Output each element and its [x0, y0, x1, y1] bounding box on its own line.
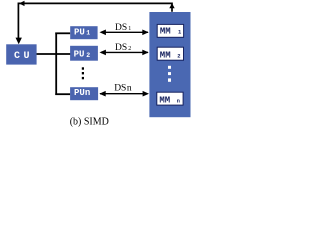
- svg-text:1: 1: [86, 29, 90, 36]
- svg-text:n: n: [177, 97, 180, 104]
- svg-text:MM: MM: [160, 50, 171, 60]
- DS2 double arrow wire: [100, 43, 149, 55]
- ellipsis dots between PU2 and PUn: [82, 67, 84, 79]
- svg-text:PU: PU: [74, 88, 85, 98]
- wire: trunk branch to PU1: [55, 32, 70, 34]
- svg-text:PU: PU: [74, 27, 85, 37]
- svg-text:2: 2: [128, 46, 131, 52]
- shared memory big box: [149, 12, 190, 117]
- svg-text:PU: PU: [74, 50, 85, 60]
- CU box: [6, 44, 36, 64]
- svg-text:U: U: [24, 51, 30, 62]
- svg-text:DS: DS: [115, 23, 127, 33]
- wire: trunk branch to PUn: [55, 93, 70, 95]
- wire: CU to PU2 horizontal: [37, 53, 71, 55]
- svg-text:DS: DS: [114, 84, 126, 94]
- svg-text:n: n: [85, 88, 90, 98]
- PU2 box: [70, 46, 98, 61]
- svg-text:2: 2: [177, 52, 180, 59]
- svg-text:1: 1: [128, 26, 131, 32]
- MM2 box: [157, 47, 183, 60]
- MM1 box: [157, 24, 183, 37]
- svg-text:2: 2: [86, 52, 90, 59]
- DS1 double arrow wire: [100, 23, 149, 35]
- svg-text:C: C: [14, 51, 20, 62]
- white ellipsis dashes between MM2 and MMn: [168, 66, 171, 82]
- arrowhead down into CU: [16, 38, 22, 45]
- svg-text:(b) SIMD: (b) SIMD: [70, 116, 109, 127]
- PUn box: [70, 87, 98, 100]
- svg-text:MM: MM: [159, 95, 170, 105]
- wire: IS feedback path from memory top going up, left, down to CU: [18, 3, 172, 42]
- svg-text:MM: MM: [160, 27, 171, 37]
- arrowhead up at memory end of feedback wire: [169, 3, 174, 8]
- wire: vertical trunk: [55, 33, 57, 96]
- svg-text:DS: DS: [115, 43, 127, 53]
- arrowhead left on top feedback wire: [19, 1, 25, 6]
- DSn double arrow wire: [99, 84, 149, 97]
- PU1 box: [70, 26, 97, 39]
- svg-text:n: n: [127, 84, 132, 94]
- MMn box: [157, 92, 183, 105]
